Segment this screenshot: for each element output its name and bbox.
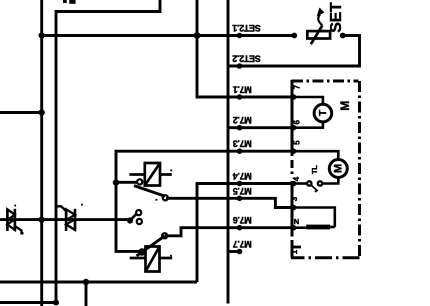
- motor T circle: [314, 104, 332, 122]
- wire M7.7 stub y=251.5: [228, 250, 239, 253]
- enclosure dash-dot box: [291, 80, 360, 258]
- pin 6 dot: [291, 125, 297, 131]
- svg-text:M7.4: M7.4: [233, 171, 252, 181]
- svg-text:TL: TL: [310, 165, 319, 174]
- relay K2 contact moving circle: [162, 233, 167, 238]
- relay K2 contact lever: [137, 236, 165, 256]
- node label dot M7.4 (239.5,183.5): [237, 181, 243, 187]
- wire M7.2 y=127.7 from x=228 to pin6: [228, 126, 294, 129]
- node label dot SET2.2 (239.5,66): [237, 63, 243, 69]
- pin 2 dot: [291, 225, 297, 231]
- relay K2 coil box: [130, 247, 173, 272]
- speck K1 linkage: [156, 199, 158, 201]
- relay K1 coil box: [129, 163, 171, 186]
- box bottom edge: [291, 256, 360, 259]
- speck K2 linkage: [169, 255, 171, 257]
- motor T unit wires pin7/pin6: [294, 97, 323, 128]
- box left edge solid top: [291, 80, 294, 156]
- heater R1 leads: [294, 208, 335, 228]
- relay K1 coil leads: [129, 173, 144, 176]
- svg-text:SET: SET: [328, 2, 345, 33]
- node label dot SET2.1 (239.5,35.5): [237, 33, 243, 39]
- wire triac row y=219.6 from left edge to switch: [0, 218, 130, 221]
- potentiometer SET body: [307, 15, 330, 45]
- relay K2 contact fixed circle: [139, 249, 144, 254]
- wire vertical x=197 upper, corner into M7.1: [197, 0, 294, 97]
- wire K1 contact feed: [116, 181, 138, 184]
- pin 5 dot: [291, 148, 297, 154]
- switch TL lever: [311, 185, 317, 192]
- wire vertical x=86 from bottom wire to bottom edge: [85, 282, 88, 306]
- node junction dot rail-contact (116,182.5): [113, 179, 119, 185]
- motor M circle: [329, 160, 347, 178]
- svg-text:N: N: [294, 217, 299, 226]
- node label dot M7.6 (239.5,227.7): [237, 225, 243, 231]
- switch S1 upper throw circle: [136, 210, 141, 215]
- triac Q1: [7, 209, 23, 234]
- relay K1 contact moving circle: [163, 195, 168, 200]
- box right edge: [358, 81, 361, 258]
- box left edge bottom corner: [291, 240, 294, 258]
- svg-text:SET2.2: SET2.2: [232, 54, 261, 64]
- pin 7 dot: [291, 94, 297, 100]
- wire bottom y=282 from left edge to x=197: [0, 281, 197, 284]
- node junction dot (197,35.5): [194, 32, 201, 39]
- node junction dot (86,282): [83, 279, 89, 285]
- potentiometer arrowhead: [317, 8, 325, 17]
- pin 3 dot: [291, 205, 297, 211]
- wire SET2.1 y=35.5 from bus to potentiometer: [42, 34, 295, 37]
- wire bottom-left y=302.5 from left edge to x=56: [0, 301, 56, 304]
- potentiometer adjust squiggle: [318, 15, 322, 26]
- svg-text:SET2.1: SET2.1: [232, 23, 261, 33]
- svg-text:M7.5: M7.5: [233, 186, 252, 196]
- svg-text:M7.2: M7.2: [233, 115, 252, 125]
- wire vertical x=228 full height: [227, 0, 230, 304]
- potentiometer arrow diagonal: [311, 26, 323, 45]
- svg-text:T: T: [318, 110, 329, 116]
- node label dot M7.7 (239.5,251.5): [237, 249, 243, 255]
- svg-text:6: 6: [292, 119, 301, 124]
- heater R1 body: [306, 225, 330, 230]
- node label dot M7.1 (239.5,97): [237, 94, 243, 100]
- svg-text:M7.3: M7.3: [233, 139, 252, 149]
- relay K1 contact lever: [134, 186, 165, 197]
- wire M7.5 y=198.3 from relay1 contact, jog down to pin3: [166, 198, 294, 207]
- wire left bus vertical x=42: [40, 0, 43, 306]
- node junction dot (42,219.6): [39, 216, 45, 222]
- node pot right terminal dot: [340, 33, 346, 39]
- switch TL contact circle B: [318, 181, 322, 185]
- top cut text fragment: [63, 0, 67, 3]
- box top edge: [292, 80, 359, 83]
- triac Q2: [58, 206, 76, 231]
- speck K2 right lead: [170, 255, 172, 257]
- speck above Q1: [14, 205, 16, 207]
- node junction dot (42,112.5): [39, 109, 45, 115]
- speck above Q2: [81, 204, 83, 206]
- wire M7.4 y=183.5 corner down to bottom wire: [197, 184, 294, 283]
- svg-text:M7.7: M7.7: [233, 239, 252, 249]
- svg-text:M: M: [338, 101, 352, 111]
- svg-text:M: M: [333, 164, 345, 173]
- wire vertical x=55.5 with top corner to x=160 exiting top: [56, 0, 160, 303]
- switch S1 lower throw circle: [137, 219, 142, 224]
- box left edge dash-dot mid: [291, 160, 294, 175]
- relay K1 contact fixed circle: [137, 179, 142, 184]
- pin 1 stub: [292, 246, 301, 249]
- node label dot M7.5 (239.5,198.3): [237, 196, 243, 202]
- node junction dot (42,35.5): [39, 32, 45, 38]
- relay K2 coil leads: [130, 257, 146, 260]
- wire SET2.2 y=66 from x=228 to pot loop right: [228, 36, 360, 67]
- wire relay rail x=116 from M7.3 down to relay2 contact: [116, 150, 140, 252]
- box left edge solid lower: [291, 181, 294, 237]
- svg-text:5: 5: [292, 140, 301, 145]
- svg-text:M7.1: M7.1: [233, 85, 252, 95]
- switch TL contact circle A: [307, 181, 311, 185]
- wire M7.6 y=227.7 from relay2 contact jog to pin2: [165, 228, 294, 236]
- wire stub top-left entering bus at y=112.5: [0, 111, 42, 114]
- motor M (TL) feed from pin5: [294, 151, 339, 183]
- node label dot M7.2 (239.5,127.7): [237, 125, 243, 131]
- svg-text:M7.6: M7.6: [233, 215, 252, 225]
- speck K1 right lead: [170, 170, 172, 172]
- node junction dot (56,302.5): [53, 300, 59, 306]
- node pot left terminal dot: [291, 33, 297, 39]
- switch S1 lever: [129, 213, 137, 221]
- svg-text:7: 7: [292, 84, 301, 89]
- wire M7.3 y=151.2 from relay rail corner to pin5: [115, 150, 294, 153]
- pin 4 dot: [291, 181, 297, 187]
- svg-text:4: 4: [292, 176, 301, 181]
- switch S1 (SPDT) pivot dot: [127, 217, 133, 223]
- node label dot M7.3 (239.5,151.2): [237, 148, 243, 154]
